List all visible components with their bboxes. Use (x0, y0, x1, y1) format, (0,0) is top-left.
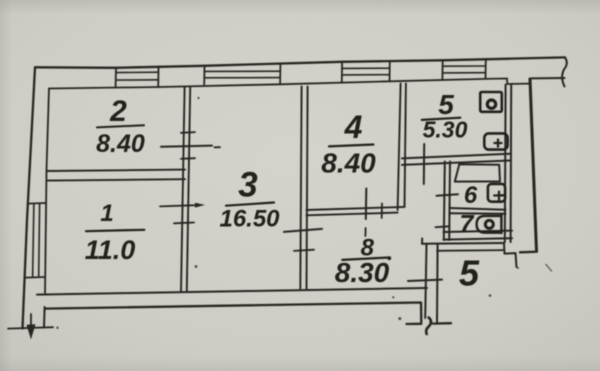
svg-text:8.40: 8.40 (321, 148, 376, 179)
svg-text:1: 1 (100, 200, 113, 227)
svg-text:8.30: 8.30 (335, 257, 390, 288)
svg-text:11.0: 11.0 (85, 235, 136, 265)
svg-text:5.30: 5.30 (423, 117, 468, 143)
svg-text:7: 7 (460, 211, 475, 239)
svg-text:5: 5 (459, 253, 480, 294)
svg-text:4: 4 (344, 109, 363, 145)
svg-text:3: 3 (238, 166, 258, 205)
svg-text:6: 6 (464, 182, 478, 209)
svg-text:2: 2 (109, 95, 127, 128)
svg-text:5: 5 (438, 89, 454, 120)
svg-text:16.50: 16.50 (219, 206, 280, 233)
svg-text:8.40: 8.40 (96, 130, 145, 158)
